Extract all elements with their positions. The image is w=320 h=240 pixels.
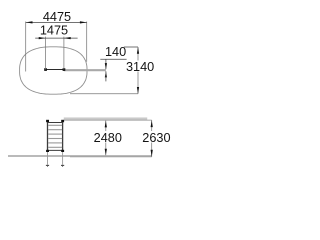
bottom reference line 2630 xyxy=(70,156,152,158)
arrow 3140 down xyxy=(137,87,139,94)
ladder rung 5 xyxy=(48,142,62,144)
dimension line 1475 xyxy=(35,37,77,39)
ladder left rail xyxy=(47,121,49,151)
gray edge board band (140 thick) xyxy=(64,69,106,71)
extension line 3140 top xyxy=(124,46,138,48)
ground line xyxy=(8,155,152,157)
anchor tip right xyxy=(62,165,64,166)
node dot right xyxy=(63,68,66,71)
140 dimension vertical line upper xyxy=(105,59,107,69)
ladder rung 1 xyxy=(48,124,62,126)
label 3140 background xyxy=(127,61,154,72)
arrow 1475 left (outside, pointing right at ext line) xyxy=(39,37,46,39)
arrow 4475 right xyxy=(80,21,87,23)
extension line 1475 left xyxy=(45,37,47,70)
dimension line 4475 xyxy=(26,21,87,23)
svg-text:4475: 4475 xyxy=(43,10,71,24)
platform board (gray band) xyxy=(64,118,147,120)
arrow 4475 left xyxy=(26,21,33,23)
ladder rung 4 xyxy=(48,138,62,140)
oval platform outline xyxy=(20,47,87,94)
ladder rung 3 xyxy=(48,133,62,135)
node dot left xyxy=(44,68,47,71)
extension line 4475 left xyxy=(25,22,27,72)
arrow 140 down (tip at band top) xyxy=(105,63,107,69)
anchor tip left xyxy=(47,165,49,166)
extension line 3140 bottom xyxy=(70,93,138,95)
arrow 1475 right (outside, pointing left at ext line) xyxy=(64,37,71,39)
140 dimension vertical tail lower xyxy=(105,71,107,81)
arrow 2480 up xyxy=(105,121,107,128)
extension line 4475 right xyxy=(86,22,88,62)
platform board bottom edge line to 2630 xyxy=(64,119,152,121)
ladder rung 2 xyxy=(48,129,62,131)
ladder cap left xyxy=(46,120,49,122)
buried leg right xyxy=(62,152,64,165)
ladder bottom bar xyxy=(47,149,63,151)
svg-text:2630: 2630 xyxy=(142,131,170,145)
ladder foot right xyxy=(61,150,64,152)
svg-text:140: 140 xyxy=(105,45,126,59)
ladder foot left xyxy=(46,150,49,152)
dimension line 2480 vertical xyxy=(105,121,107,156)
ladder right rail xyxy=(62,121,64,151)
arrow 2630 down xyxy=(151,150,153,157)
svg-text:2480: 2480 xyxy=(94,131,122,145)
dimension line 2630 vertical xyxy=(151,120,153,157)
anchor left xyxy=(46,164,49,166)
arrow 140 up (tip at band bottom) xyxy=(105,71,107,77)
ladder cap right xyxy=(61,120,64,122)
buried leg left xyxy=(47,152,49,165)
svg-text:3140: 3140 xyxy=(126,60,154,74)
label 2480 background xyxy=(94,131,122,143)
140 dimension shelf line xyxy=(100,58,126,60)
dimension line 3140 vertical xyxy=(137,47,139,94)
ladder rung 6 xyxy=(48,146,62,148)
arrow 2480 down xyxy=(105,149,107,156)
label 2630 background xyxy=(142,131,171,143)
ladder top bar xyxy=(47,122,63,124)
arrow 3140 up xyxy=(137,47,139,54)
extension line 1475 right xyxy=(63,37,65,70)
svg-text:1475: 1475 xyxy=(40,23,68,37)
arrow 2630 up xyxy=(151,120,153,127)
dark line between dots xyxy=(46,69,64,71)
anchor right xyxy=(61,164,64,166)
platform board top edge xyxy=(64,117,147,119)
